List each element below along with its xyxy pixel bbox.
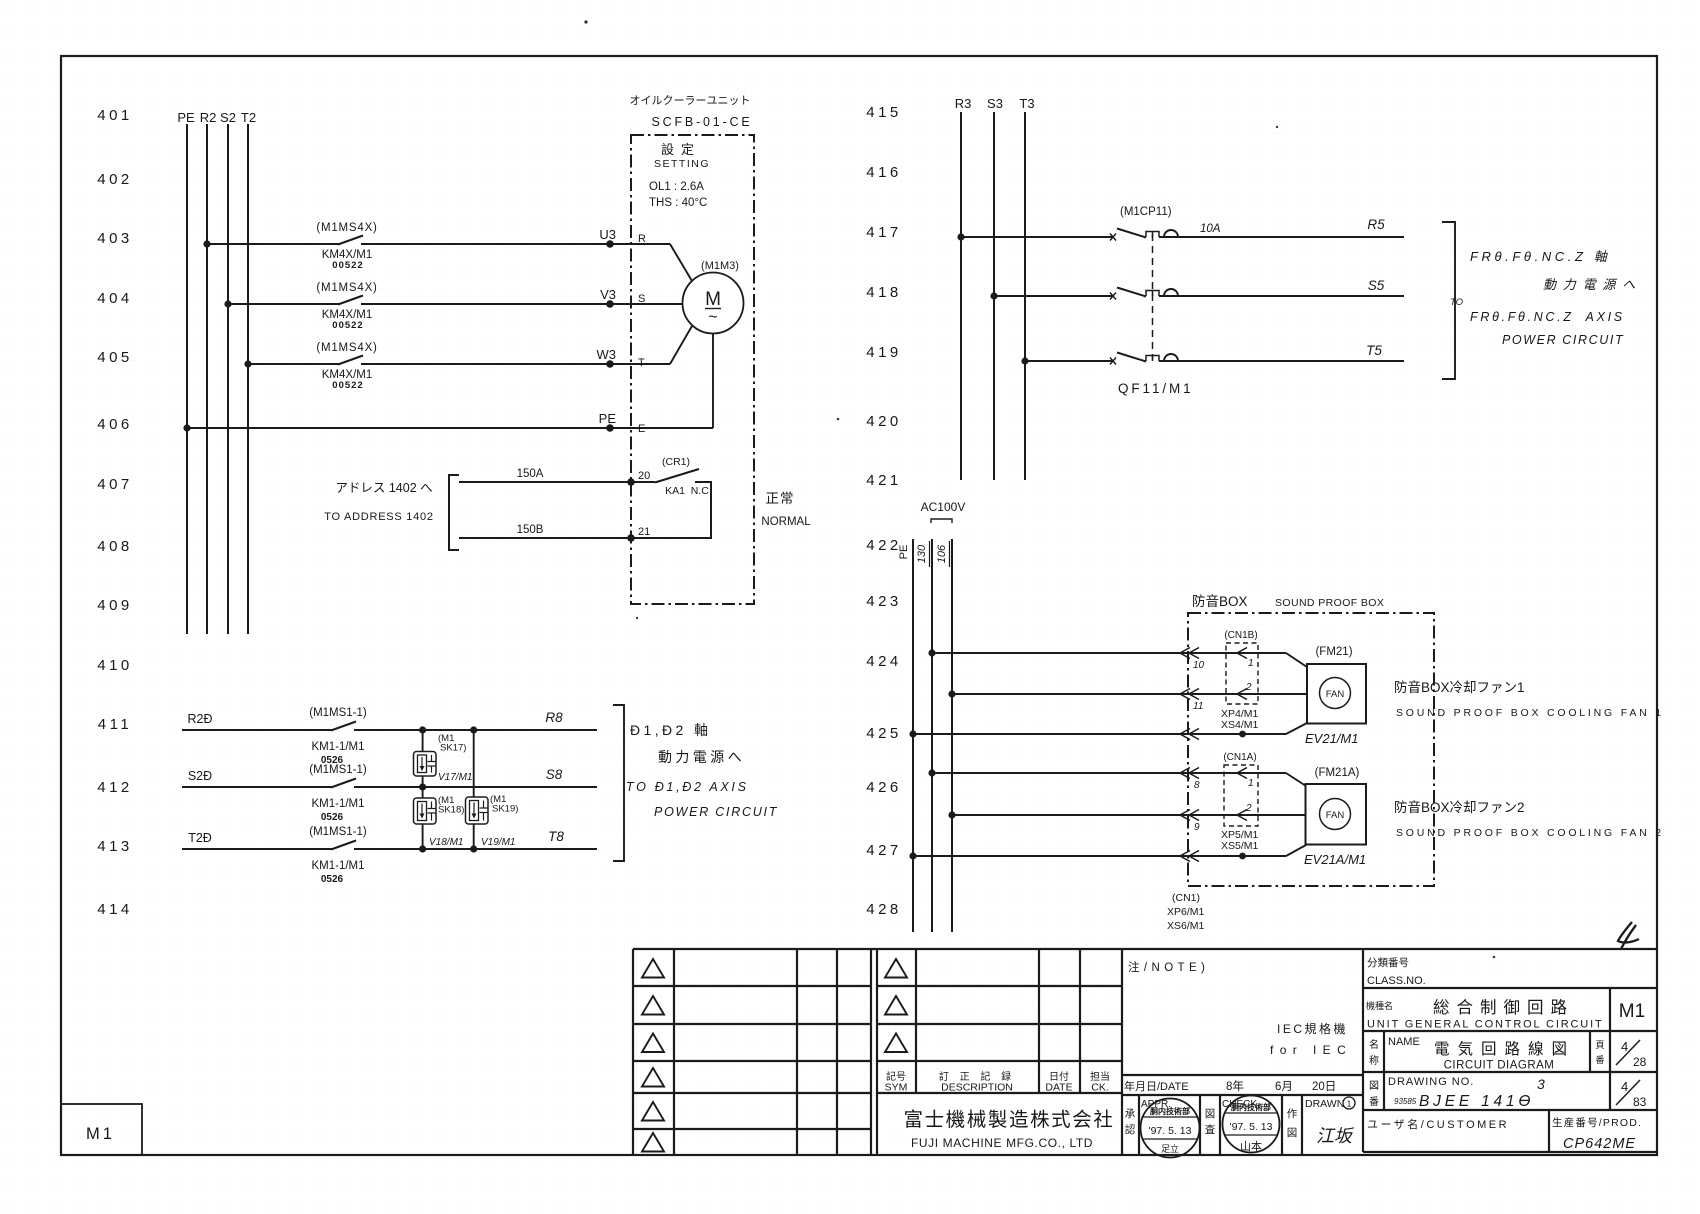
- junction T3 419: [1021, 357, 1028, 364]
- svg-text:SK18): SK18): [438, 805, 464, 816]
- contact KM4X/M1 row 403: [316, 222, 377, 271]
- svg-text:AC100V: AC100V: [921, 500, 966, 514]
- svg-text:認: 認: [1125, 1123, 1136, 1136]
- stamp CHECK: [1222, 1096, 1280, 1154]
- svg-text:CIRCUIT DIAGRAM: CIRCUIT DIAGRAM: [1444, 1060, 1555, 1072]
- svg-text:426: 426: [866, 779, 902, 796]
- svg-text:428: 428: [866, 901, 902, 918]
- node PE406: [599, 411, 617, 432]
- svg-text:POWER CIRCUIT: POWER CIRCUIT: [1502, 333, 1624, 347]
- svg-text:(M1MS4X): (M1MS4X): [316, 342, 377, 354]
- surge absorber SK18: [414, 795, 465, 848]
- breaker mechanical link: [1152, 234, 1154, 359]
- svg-text:401: 401: [97, 107, 133, 124]
- wire 150B: [459, 524, 631, 538]
- svg-text:407: 407: [97, 476, 133, 493]
- junction PE rail fan2: [909, 852, 916, 859]
- svg-text:106: 106: [936, 544, 948, 563]
- svg-text:414: 414: [97, 901, 133, 918]
- connector names XP5 XS5: [1221, 829, 1259, 852]
- svg-text:V18/M1: V18/M1: [429, 837, 463, 848]
- wire fan2 pin1 row 426: [932, 772, 1286, 774]
- connector CN1B: [1224, 630, 1258, 704]
- wire T to motor: [670, 326, 692, 364]
- wire diag to FM21: [1286, 653, 1307, 667]
- wire row 405 left: [248, 363, 339, 365]
- svg-text:T8: T8: [548, 829, 564, 844]
- svg-text:電気回路線図: 電気回路線図: [1434, 1040, 1575, 1058]
- svg-text:T2: T2: [241, 110, 256, 125]
- chevrons box edge PE fan2: [1180, 851, 1199, 862]
- svg-text:00522: 00522: [332, 320, 363, 331]
- customer row: [1367, 1116, 1642, 1152]
- svg-text:0526: 0526: [321, 874, 344, 885]
- connector CN1 label: [1167, 892, 1205, 932]
- svg-text:FUJI MACHINE MFG.CO., LTD: FUJI MACHINE MFG.CO., LTD: [911, 1136, 1093, 1150]
- svg-text:11: 11: [1193, 701, 1203, 712]
- fan FM21: [1305, 646, 1366, 746]
- svg-text:W3: W3: [597, 347, 617, 362]
- sound proof box title: [1192, 593, 1384, 609]
- wire R2 bus: [206, 124, 208, 634]
- svg-text:10A: 10A: [1200, 223, 1221, 235]
- svg-text:20日: 20日: [1312, 1081, 1336, 1093]
- svg-text:28: 28: [1633, 1055, 1647, 1069]
- svg-text:TO: TO: [1450, 297, 1464, 308]
- name row: [1369, 1036, 1647, 1072]
- svg-text:150B: 150B: [517, 524, 544, 536]
- svg-text:分類番号: 分類番号: [1367, 957, 1409, 969]
- svg-text:承: 承: [1125, 1108, 1136, 1120]
- svg-text:正常: 正常: [766, 491, 795, 506]
- svg-text:423: 423: [866, 593, 902, 610]
- svg-text:20: 20: [638, 470, 650, 482]
- svg-text:SETTING: SETTING: [654, 158, 710, 170]
- wire row 411 right R8: [354, 710, 597, 730]
- node U3: [599, 227, 616, 248]
- class no: [1367, 957, 1426, 987]
- svg-text:SK19): SK19): [492, 804, 518, 815]
- svg-text:XS4/M1: XS4/M1: [1221, 719, 1259, 731]
- chevron CN1B pin2: [1237, 689, 1247, 700]
- svg-text:412: 412: [97, 779, 133, 796]
- svg-text:427: 427: [866, 842, 902, 859]
- svg-text:FRθ.Fθ.NC.Z AXIS: FRθ.Fθ.NC.Z AXIS: [1470, 310, 1625, 324]
- wire row 418: [994, 295, 1113, 297]
- unit name: [1366, 998, 1604, 1031]
- wire row 411 left R2D: [182, 712, 332, 730]
- svg-text:名: 名: [1369, 1038, 1379, 1051]
- svg-text:00522: 00522: [332, 260, 363, 271]
- wire T2 bus: [247, 124, 249, 634]
- relay contact KA1 N.C: [655, 456, 709, 497]
- svg-text:8年: 8年: [1226, 1079, 1244, 1093]
- fan FM21A: [1304, 767, 1366, 867]
- junction R3 417: [957, 233, 964, 240]
- drawing no row: [1369, 1076, 1647, 1110]
- svg-text:NAME: NAME: [1388, 1036, 1420, 1048]
- revision triangles left table: [642, 959, 664, 1152]
- svg-text:FRθ.Fθ.NC.Z 軸: FRθ.Fθ.NC.Z 軸: [1470, 249, 1610, 264]
- svg-text:年月日/DATE: 年月日/DATE: [1124, 1079, 1189, 1093]
- svg-text:動力電源へ: 動力電源へ: [1543, 277, 1642, 292]
- wire fan1 PE row 425: [913, 733, 1286, 735]
- svg-text:設定: 設定: [661, 142, 701, 157]
- date row: [1124, 1079, 1336, 1093]
- svg-text:KM1-1/M1: KM1-1/M1: [311, 798, 364, 810]
- svg-text:150A: 150A: [517, 468, 544, 480]
- svg-text:SCFB-01-CE: SCFB-01-CE: [652, 115, 753, 129]
- svg-text:SOUND PROOF BOX: SOUND PROOF BOX: [1275, 597, 1384, 609]
- svg-text:405: 405: [97, 349, 133, 366]
- svg-text:R2: R2: [200, 110, 217, 125]
- chevron CN1A pin1: [1237, 768, 1247, 779]
- junction 106: [948, 690, 955, 697]
- svg-text:(M1MS1-1): (M1MS1-1): [309, 826, 367, 838]
- wire motor to E: [712, 333, 714, 428]
- wire contact to 21 loop: [631, 482, 711, 538]
- svg-text:~: ~: [708, 309, 717, 326]
- svg-text:4: 4: [1621, 1079, 1628, 1094]
- svg-text:足立: 足立: [1161, 1143, 1179, 1154]
- junction on T2 row 405: [244, 360, 251, 367]
- svg-text:415: 415: [866, 104, 902, 121]
- svg-text:(CR1): (CR1): [662, 456, 690, 468]
- sheet code box M1: [61, 1104, 142, 1155]
- svg-text:IEC規格機: IEC規格機: [1277, 1021, 1348, 1036]
- bracket to FR axis power: [1442, 222, 1455, 379]
- junction earth pin fan1: [1239, 731, 1246, 738]
- handwritten page mark 4: [1618, 922, 1639, 949]
- svg-text:0526: 0526: [321, 812, 344, 823]
- wire 150A: [459, 468, 655, 482]
- connector names XP4 XS4: [1221, 708, 1259, 731]
- chevron CN1A pin2: [1237, 810, 1247, 821]
- wire R3 bus: [960, 112, 962, 480]
- svg-text:防音BOX: 防音BOX: [1192, 593, 1248, 609]
- svg-text:R: R: [638, 233, 646, 245]
- svg-text:R8: R8: [545, 710, 563, 725]
- svg-text:'97. 5. 13: '97. 5. 13: [1230, 1121, 1273, 1133]
- label D1 D2 axis power: [626, 722, 778, 819]
- junction row413 x473: [470, 845, 477, 852]
- junction PE rail: [909, 730, 916, 737]
- node PE bus label: [177, 110, 195, 125]
- svg-text:(M1CP11): (M1CP11): [1120, 206, 1172, 218]
- svg-text:403: 403: [97, 230, 133, 247]
- node 130 rail label: [916, 541, 930, 567]
- svg-text:XS5/M1: XS5/M1: [1221, 840, 1259, 852]
- setting text block: [649, 142, 710, 209]
- scan speck: [584, 20, 587, 23]
- svg-text:402: 402: [97, 171, 133, 188]
- svg-text:TO Đ1,Đ2 AXIS: TO Đ1,Đ2 AXIS: [626, 780, 749, 794]
- wire varistor branch 1: [422, 730, 424, 849]
- svg-text:BJEE 141Ө: BJEE 141Ө: [1419, 1093, 1534, 1110]
- svg-text:409: 409: [97, 597, 133, 614]
- svg-text:130: 130: [916, 544, 928, 563]
- svg-text:T2Đ: T2Đ: [188, 831, 212, 845]
- svg-text:DESCRIPTION: DESCRIPTION: [941, 1082, 1013, 1094]
- svg-text:CP642ME: CP642ME: [1563, 1136, 1636, 1152]
- svg-text:生産番号/PROD.: 生産番号/PROD.: [1552, 1116, 1642, 1129]
- sound proof box enclosure: [1188, 613, 1434, 886]
- caption fan2: [1394, 799, 1664, 839]
- wire row 403 right: [361, 243, 670, 245]
- svg-text:10: 10: [1193, 660, 1205, 671]
- svg-text:R3: R3: [955, 96, 972, 111]
- junction row412 x422: [419, 783, 426, 790]
- node 106 rail label: [936, 541, 950, 567]
- svg-text:V3: V3: [600, 287, 616, 302]
- wire S2 bus: [227, 124, 229, 634]
- svg-text:(CN1A): (CN1A): [1223, 752, 1256, 763]
- svg-text:SOUND PROOF BOX COOLING FAN 2: SOUND PROOF BOX COOLING FAN 2: [1396, 827, 1664, 839]
- svg-text:21: 21: [638, 526, 650, 538]
- label FR axis power circuit: [1450, 249, 1642, 347]
- drawn cell: [1287, 1108, 1298, 1139]
- svg-text:富士機械製造株式会社: 富士機械製造株式会社: [903, 1109, 1114, 1131]
- svg-text:8: 8: [1194, 780, 1200, 791]
- svg-text:2: 2: [1245, 803, 1252, 814]
- svg-text:421: 421: [866, 472, 902, 489]
- svg-text:査: 査: [1205, 1123, 1216, 1136]
- svg-text:PE: PE: [898, 545, 910, 560]
- contact KM1-1/M1 row 413: [309, 826, 367, 885]
- svg-text:408: 408: [97, 538, 133, 555]
- svg-text:R2Đ: R2Đ: [187, 712, 212, 726]
- svg-text:'97. 5. 13: '97. 5. 13: [1149, 1125, 1192, 1137]
- svg-text:SYM: SYM: [885, 1082, 908, 1094]
- wire varistor branch 2: [473, 730, 475, 849]
- svg-text:6月: 6月: [1275, 1081, 1293, 1093]
- svg-text:418: 418: [866, 284, 902, 301]
- svg-text:416: 416: [866, 164, 902, 181]
- svg-text:S2Đ: S2Đ: [188, 769, 212, 783]
- svg-text:(M1MS4X): (M1MS4X): [316, 282, 377, 294]
- svg-text:江坂: 江坂: [1316, 1126, 1355, 1146]
- wire row 413 left T2D: [182, 831, 332, 849]
- node 20: [627, 470, 650, 486]
- svg-text:DRAWING NO.: DRAWING NO.: [1388, 1076, 1474, 1088]
- breaker pole row 419: [1110, 353, 1178, 365]
- svg-text:E: E: [638, 423, 645, 435]
- caption fan1: [1394, 679, 1664, 719]
- svg-text:EV21/M1: EV21/M1: [1305, 731, 1358, 746]
- contact KM1-1/M1 row 412: [309, 764, 367, 823]
- svg-text:(M1MS1-1): (M1MS1-1): [309, 764, 367, 776]
- revision header SYM: [885, 1070, 1110, 1094]
- svg-text:1: 1: [1248, 658, 1254, 669]
- contact KM4X/M1 row 405: [316, 342, 377, 391]
- wire row 404 left: [228, 303, 339, 305]
- breaker pole row 417: [1110, 229, 1178, 241]
- svg-text:EV21A/M1: EV21A/M1: [1304, 852, 1366, 867]
- wire 130 rail: [931, 539, 933, 932]
- stamp APPR: [1141, 1099, 1200, 1158]
- svg-text:1: 1: [1347, 1099, 1352, 1109]
- svg-text:M: M: [705, 289, 721, 310]
- svg-text:図: 図: [1287, 1127, 1298, 1139]
- chevrons box edge row426: [1180, 768, 1199, 779]
- bracket D1 D2 axis: [613, 705, 624, 861]
- svg-text:422: 422: [866, 537, 902, 554]
- chevrons box edge fan2 pin2: [1180, 810, 1199, 821]
- junction S3 418: [990, 292, 997, 299]
- oil cooler unit title: [630, 94, 753, 129]
- svg-text:DATE: DATE: [1045, 1082, 1072, 1094]
- wire row 419: [1025, 360, 1113, 362]
- svg-text:KA1 N.C: KA1 N.C: [665, 485, 709, 497]
- chevron CN1B pin1: [1237, 648, 1247, 659]
- label AC100V: [921, 500, 966, 523]
- svg-text:411: 411: [98, 716, 132, 733]
- wire R to motor: [670, 244, 692, 281]
- svg-text:THS : 40°C: THS : 40°C: [649, 197, 707, 209]
- svg-text:PE: PE: [599, 411, 617, 426]
- svg-text:4: 4: [1621, 1039, 1628, 1054]
- svg-text:419: 419: [866, 344, 902, 361]
- svg-text:NORMAL: NORMAL: [761, 516, 811, 528]
- svg-text:動力電源へ: 動力電源へ: [658, 749, 745, 765]
- approval cell: [1125, 1108, 1136, 1136]
- svg-text:413: 413: [97, 838, 133, 855]
- svg-text:称: 称: [1369, 1054, 1379, 1067]
- wire S3 bus: [993, 112, 995, 480]
- wire row 417: [961, 236, 1113, 238]
- wire PE bus: [186, 124, 188, 634]
- breaker pole row 418: [1110, 288, 1178, 300]
- svg-text:417: 417: [866, 224, 902, 241]
- wire diag PE to FM21A: [1286, 845, 1306, 856]
- junction on S2 row 404: [224, 300, 231, 307]
- node T2 bus label: [241, 110, 256, 125]
- chevrons box edge row424: [1180, 648, 1199, 659]
- wire row 413 right T8: [354, 829, 597, 849]
- wire row 405 right: [361, 363, 670, 365]
- wire fan2 PE row 427: [913, 855, 1286, 857]
- svg-text:M1: M1: [86, 1125, 115, 1143]
- svg-text:2: 2: [1245, 682, 1252, 693]
- wire row 419 right T5: [1159, 343, 1404, 361]
- wire 106 rail: [951, 539, 953, 932]
- svg-text:(M1M3): (M1M3): [701, 260, 739, 272]
- svg-text:V17/M1: V17/M1: [438, 772, 472, 783]
- junction on PE row 406: [183, 424, 190, 431]
- svg-text:OL1 : 2.6A: OL1 : 2.6A: [649, 181, 704, 193]
- svg-text:POWER CIRCUIT: POWER CIRCUIT: [654, 805, 778, 819]
- svg-text:オイルクーラーユニット: オイルクーラーユニット: [630, 94, 751, 107]
- svg-text:山本: 山本: [1240, 1139, 1262, 1153]
- svg-text:(M1MS4X): (M1MS4X): [316, 222, 377, 234]
- svg-text:SOUND PROOF BOX COOLING FAN 1: SOUND PROOF BOX COOLING FAN 1: [1396, 707, 1664, 719]
- svg-text:注/NOTE): 注/NOTE): [1128, 960, 1209, 974]
- surge absorber SK19: [466, 794, 519, 848]
- svg-text:S8: S8: [546, 767, 563, 782]
- svg-text:404: 404: [97, 290, 133, 307]
- svg-text:PE: PE: [177, 110, 195, 125]
- svg-text:T: T: [638, 357, 645, 369]
- svg-text:図: 図: [1205, 1108, 1216, 1120]
- company name: [903, 1109, 1114, 1150]
- svg-text:425: 425: [866, 725, 902, 742]
- svg-text:U3: U3: [599, 227, 616, 242]
- node 21: [627, 526, 650, 542]
- surge absorber SK17: [414, 733, 473, 783]
- svg-text:ユーザ名/CUSTOMER: ユーザ名/CUSTOMER: [1367, 1117, 1509, 1131]
- svg-text:83: 83: [1633, 1095, 1647, 1109]
- junction 106 fan2: [948, 811, 955, 818]
- contact KM1-1/M1 row 411: [309, 707, 367, 766]
- wire PE rail: [912, 539, 914, 932]
- svg-text:胴内技術部: 胴内技術部: [1149, 1106, 1190, 1116]
- title block grid: [633, 949, 1657, 1155]
- svg-text:V19/M1: V19/M1: [481, 837, 515, 848]
- label address 1402: [324, 481, 433, 523]
- node V3: [600, 287, 616, 308]
- chevrons box edge pin2: [1180, 689, 1199, 700]
- svg-text:アドレス 1402 へ: アドレス 1402 へ: [335, 481, 432, 495]
- wire row 417 right R5: [1159, 217, 1404, 237]
- connector CN1A: [1223, 752, 1258, 826]
- svg-text:DRAWN: DRAWN: [1305, 1098, 1344, 1110]
- svg-text:T5: T5: [1366, 343, 1382, 358]
- motor M1M3: [683, 260, 744, 334]
- wire row 403 left: [207, 243, 339, 245]
- svg-text:(FM21A): (FM21A): [1315, 767, 1360, 779]
- svg-text:M1: M1: [1619, 1001, 1645, 1022]
- svg-text:S5: S5: [1368, 278, 1385, 293]
- row numbers right: [866, 104, 902, 918]
- svg-text:CK.: CK.: [1091, 1082, 1109, 1094]
- svg-text:図: 図: [1369, 1080, 1379, 1092]
- svg-text:406: 406: [97, 416, 133, 433]
- svg-text:S3: S3: [987, 96, 1003, 111]
- junction row413 x422: [419, 845, 426, 852]
- oil cooler unit enclosure box: [631, 135, 754, 604]
- node S2 bus label: [220, 110, 236, 125]
- svg-text:機種名: 機種名: [1366, 1000, 1393, 1011]
- svg-text:T3: T3: [1019, 96, 1034, 111]
- svg-text:(FM21): (FM21): [1315, 646, 1352, 658]
- svg-text:番: 番: [1369, 1096, 1379, 1108]
- wire row 406 PE: [187, 427, 713, 429]
- check cell: [1205, 1108, 1216, 1136]
- contact KM4X/M1 row 404: [316, 282, 377, 331]
- svg-text:FAN: FAN: [1326, 689, 1345, 700]
- node W3: [597, 347, 617, 368]
- junction on R2 row 403: [203, 240, 210, 247]
- wire diag to FM21A: [1286, 773, 1306, 786]
- svg-text:93585: 93585: [1394, 1097, 1417, 1106]
- svg-text:作: 作: [1287, 1108, 1298, 1120]
- svg-text:9: 9: [1194, 822, 1200, 833]
- wire fan1 pin1 row 424: [932, 652, 1286, 654]
- chevrons box edge PE: [1180, 729, 1199, 740]
- svg-text:FAN: FAN: [1326, 810, 1345, 821]
- svg-text:UNIT GENERAL CONTROL CIRCUIT: UNIT GENERAL CONTROL CIRCUIT: [1367, 1019, 1604, 1031]
- wire row 412 left S2D: [182, 769, 332, 787]
- svg-text:S: S: [638, 293, 645, 305]
- svg-text:1: 1: [1248, 778, 1254, 789]
- svg-text:XP6/M1: XP6/M1: [1167, 906, 1205, 918]
- label normal: [761, 491, 811, 528]
- wire fan2 pin2: [952, 814, 1306, 816]
- svg-text:R5: R5: [1367, 217, 1385, 232]
- svg-text:for IEC: for IEC: [1270, 1043, 1352, 1057]
- drawn by: [1305, 1097, 1355, 1146]
- svg-text:総合制御回路: 総合制御回路: [1433, 998, 1574, 1017]
